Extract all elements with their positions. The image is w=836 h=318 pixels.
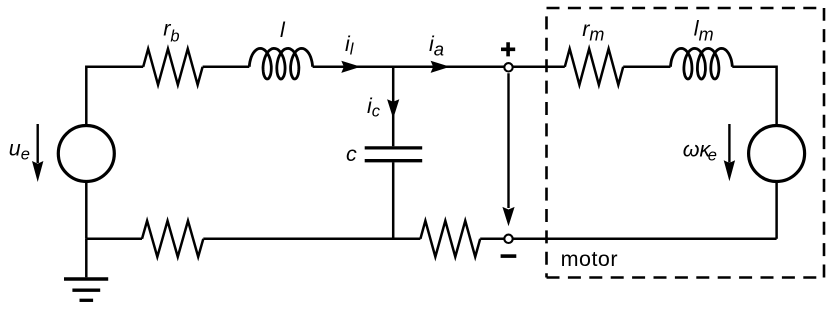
resistor rb — [143, 49, 202, 85]
resistor (bottom left, unlabeled) — [142, 221, 203, 257]
svg-text:rb: rb — [163, 17, 179, 46]
wire from plus node into motor box to rm — [513, 66, 565, 69]
resistor (bottom right, unlabeled) — [420, 221, 480, 257]
ground symbol — [64, 277, 108, 280]
wire capacitor branch (bottom) — [392, 162, 395, 239]
current arrow i_l — [341, 61, 360, 73]
current arrow i_c — [387, 99, 399, 118]
node minus terminal — [504, 235, 512, 243]
voltage arrow omega-kappa-e — [728, 124, 730, 163]
wire capacitor branch (top) — [392, 67, 395, 146]
wire from inductor l to plus terminal node — [313, 66, 505, 69]
svg-text:c: c — [346, 142, 357, 166]
inductor l — [249, 48, 312, 79]
svg-text:lm: lm — [694, 17, 714, 45]
svg-text:il: il — [345, 32, 355, 59]
wire bottom rail minus node to motor source — [513, 238, 777, 241]
source ue (input voltage) — [58, 126, 114, 182]
svg-text:ia: ia — [429, 32, 444, 59]
inductor lm — [671, 48, 733, 79]
motor box (dashed) — [547, 8, 825, 278]
svg-text:l: l — [280, 18, 286, 42]
bottom rail: left segment — [86, 238, 142, 241]
svg-text:ue: ue — [9, 137, 30, 164]
minus sign — [501, 254, 517, 258]
svg-text:ic: ic — [367, 94, 381, 120]
svg-text:ωκe: ωκe — [683, 138, 717, 165]
wire bottom rail middle — [203, 238, 420, 241]
voltage arrow from plus to minus terminal — [507, 73, 509, 208]
node plus terminal — [504, 63, 512, 71]
resistor rm — [565, 49, 623, 85]
source omega-kappa-e (motor back EMF) — [749, 126, 805, 182]
wire between rm and lm — [623, 66, 670, 69]
capacitor c plates — [365, 146, 423, 149]
wire top-left corner: source to resistor rb — [86, 67, 143, 126]
plus sign — [501, 42, 515, 56]
voltage arrow ue — [37, 124, 39, 163]
wire bottom rail to minus node — [480, 238, 504, 241]
wire between rb and inductor l — [203, 66, 250, 69]
svg-text:rm: rm — [582, 17, 604, 45]
current arrow i_a — [431, 61, 450, 73]
ground stem — [85, 239, 88, 277]
wire lm to motor source — [732, 67, 776, 126]
wire motor source to bottom rail — [775, 182, 778, 239]
svg-text:motor: motor — [561, 247, 618, 271]
wire ue source to bottom rail — [85, 182, 88, 239]
